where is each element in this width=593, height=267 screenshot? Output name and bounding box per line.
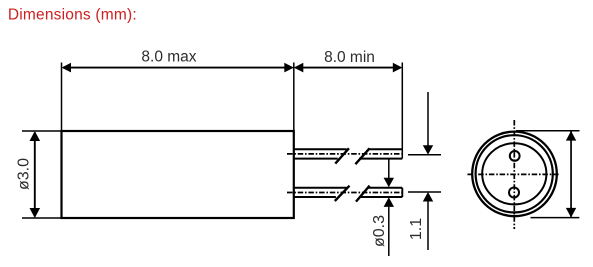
dimension ø3.0: bottom extension line [22, 217, 61, 219]
crystal body (side view) [62, 131, 294, 218]
dimension 8.0 max: shared extension line right [293, 63, 295, 131]
dimension ø3.0: dimension line [34, 133, 36, 217]
end view dimension: top extension line [516, 130, 580, 132]
end view: top pin [510, 151, 520, 161]
dimension ø0.3: lower arrow line [388, 207, 390, 257]
dimension ø0.3: up arrowhead [384, 197, 394, 207]
top lead: lower line segment 2 [359, 158, 402, 160]
bottom lead: end cap [401, 188, 403, 197]
end view dimension: bottom extension line [531, 217, 580, 219]
dimension 8.0 max: left arrowhead [62, 63, 72, 73]
top lead: centerline [287, 153, 405, 155]
end view: bottom pin [509, 188, 519, 198]
dimension 1.1: down arrowhead [423, 145, 433, 154]
dimension ø3.0: top extension line [22, 130, 61, 132]
dimension 8.0 max: right arrowhead [284, 63, 294, 73]
dimension 8.0 min: right extension line (also lead end cap) [401, 63, 403, 159]
dimension 8.0 min: left arrowhead [294, 63, 304, 73]
dimension ø3.0: top arrowhead [30, 131, 41, 141]
dimension 8.0 max: dimension line [63, 67, 292, 69]
bottom lead: lower line segment 1 [294, 196, 336, 198]
end view dimension: top arrowhead [566, 131, 576, 141]
dimension ø0.3: down arrowhead [384, 178, 394, 188]
svg-text:Dimensions (mm):: Dimensions (mm): [8, 7, 137, 24]
end view: middle circle [476, 135, 553, 212]
dimension 1.1: upper arrow line [427, 92, 429, 146]
end view: inner ellipse [482, 143, 546, 204]
top lead: upper line segment 1 [294, 148, 347, 150]
svg-text:ø3.0: ø3.0 [16, 158, 33, 190]
top lead: upper line segment 2 [368, 148, 403, 150]
bottom lead: centerline [287, 192, 405, 194]
bottom lead: break slash 1 [335, 186, 350, 201]
bottom lead: lower line segment 2 [359, 196, 402, 198]
dimension 8.0 max: extension line left [61, 63, 63, 131]
dimension 1.1: lower arrow line [427, 202, 429, 251]
end view: outer can circle [472, 132, 557, 217]
end view dimension: dimension line [570, 132, 572, 217]
svg-text:8.0 min: 8.0 min [324, 49, 375, 66]
dimension 8.0 min: right arrowhead [393, 63, 403, 73]
top lead: break slash 1 [335, 148, 349, 163]
bottom lead: upper line segment 1 [294, 187, 347, 189]
dimension 1.1: up arrowhead [423, 192, 433, 202]
end view dimension: bottom arrowhead [566, 208, 576, 218]
svg-text:8.0 max: 8.0 max [141, 49, 196, 66]
top lead: lower line segment 1 [294, 158, 338, 160]
top lead: break slash 2 [355, 148, 369, 164]
dimension 1.1: top reference line [408, 154, 441, 156]
end view: horizontal centerline [468, 173, 560, 175]
bottom lead: break slash 2 [356, 186, 370, 202]
dimension ø0.3: upper arrow line [388, 159, 390, 179]
dimension 8.0 min: dimension line [295, 67, 401, 69]
dimension ø3.0: bottom arrowhead [30, 208, 41, 218]
svg-text:ø0.3: ø0.3 [371, 215, 388, 247]
bottom lead: upper line segment 2 [368, 187, 402, 189]
dimension 1.1: bottom reference line [408, 191, 441, 193]
svg-text:1.1: 1.1 [408, 218, 425, 240]
end view: vertical centerline [513, 120, 515, 229]
